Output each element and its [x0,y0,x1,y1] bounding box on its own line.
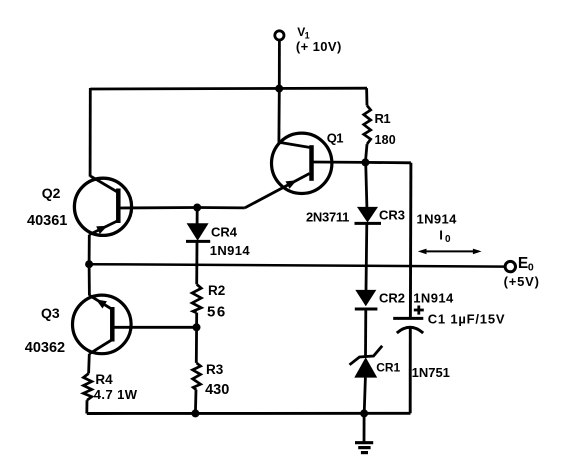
svg-text:1N751: 1N751 [412,365,450,380]
wire mid rail to E0 [89,264,505,266]
svg-text:C1 1µF/15V: C1 1µF/15V [428,312,506,327]
wire CR1 to bottom rail [364,378,365,414]
svg-text:1N914: 1N914 [210,243,251,258]
wire bottom rail [87,412,411,415]
svg-text:4.7 1W: 4.7 1W [94,387,138,402]
transistor Q1 [272,133,332,193]
wire junction to Q1 emitter diagonal [197,174,309,208]
svg-text:R2: R2 [208,283,225,298]
svg-text:R1: R1 [375,111,391,126]
svg-text:R3: R3 [206,362,224,377]
transistor Q2 [74,176,131,236]
svg-text:0: 0 [445,234,451,245]
label + (C1 polarity) [414,306,424,315]
terminal V1 [275,31,284,40]
svg-text:180: 180 [375,133,396,147]
wire R1 junction to right rail [365,161,411,164]
svg-text:1N914: 1N914 [417,212,458,227]
svg-text:1N914: 1N914 [413,291,454,306]
wire R4 to bottom rail [85,400,88,413]
terminal E0 [505,261,515,271]
svg-text:56: 56 [207,303,227,320]
svg-text:430: 430 [205,382,229,398]
node R3/bottom-rail junction [191,409,199,417]
svg-text:Q3: Q3 [41,305,60,321]
svg-text:0: 0 [528,262,534,274]
label V1 [297,25,309,41]
node Q3 base junction [193,323,201,331]
node R1/Q1-base junction [361,158,369,166]
wire Q3 base lead [112,326,196,329]
svg-text:(+5V): (+5V) [504,274,540,289]
svg-text:Q2: Q2 [42,185,61,201]
wire Q3 to R4 [87,354,91,374]
node mid-rail/left junction [85,260,93,268]
wire top rail [90,87,367,91]
wire left rail upper (Q2 collector lead) [89,88,92,177]
svg-text:40362: 40362 [25,340,65,356]
svg-text:R4: R4 [95,372,113,387]
svg-text:CR3: CR3 [379,208,405,223]
svg-text:(+ 10V): (+ 10V) [296,39,342,54]
wire Q2 emitter to mid-rail [88,235,91,265]
svg-text:CR4: CR4 [211,225,238,240]
resistor R4 [83,374,91,401]
wire CR4 to R2 [195,241,198,284]
wire V1 lead [278,40,281,89]
svg-text:I: I [439,227,443,242]
resistor R2 [192,284,201,313]
label I0 [439,227,451,245]
resistor R3 [193,363,201,390]
transistor Q3 [73,295,132,354]
diode CR4 [186,208,210,242]
wire Q2 base lead [118,206,197,209]
svg-text:CR2: CR2 [379,291,405,306]
wire CR2 to CR1 [364,309,367,357]
arrow I0 double-headed [418,249,482,255]
wire right rail upper [409,163,412,317]
wire Q1 base lead [313,161,365,164]
resistor R1 [364,88,371,162]
svg-text:2N3711: 2N3711 [306,210,349,225]
wire R3 to bottom rail [194,390,197,414]
ground [355,413,373,452]
wire diode chain upper [366,162,367,207]
wire Q1 collector lead [277,89,280,143]
node CR4 junction [193,204,201,212]
svg-text:E: E [518,255,528,272]
diode CR3 [355,207,382,224]
label E0 [518,255,534,274]
node V1/top-rail junction [275,85,283,93]
svg-text:40361: 40361 [27,213,67,229]
node ground junction [360,409,368,417]
wire R2 to R3 [195,313,198,363]
wire CR3 to CR2 [365,223,369,290]
svg-text:CR1: CR1 [376,361,400,375]
capacitor C1 [393,318,423,413]
diode CR1 zener [350,346,383,378]
diode CR2 [355,290,378,309]
wire left rail to Q3 [88,264,91,295]
svg-text:Q1: Q1 [327,131,344,146]
